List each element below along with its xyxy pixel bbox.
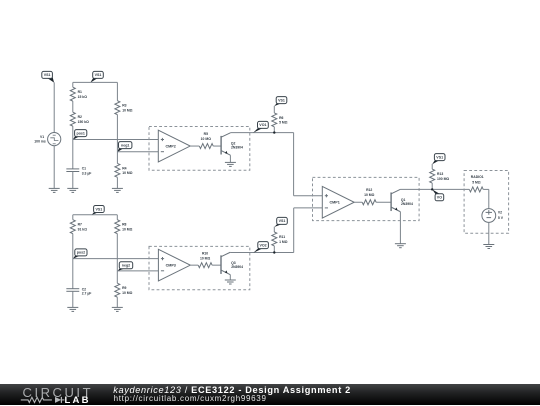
- svg-text:CMP1: CMP1: [330, 200, 340, 204]
- wire pos1 rail to CMP2 plus: [73, 139, 159, 141]
- wire R4 to ground: [116, 177, 118, 188]
- transistor Q3 2N3904: [221, 252, 243, 274]
- svg-text:150 kΩ: 150 kΩ: [78, 120, 89, 124]
- resistor R1 15k: [70, 87, 87, 101]
- svg-text:10 MΩ: 10 MΩ: [122, 108, 133, 112]
- svg-text:R8: R8: [122, 223, 126, 227]
- svg-text:10 MΩ: 10 MΩ: [200, 257, 211, 261]
- voltage source V1 100ms: [34, 133, 61, 146]
- wire CMP2 out to R5: [190, 145, 199, 147]
- net flag pos1: [73, 130, 87, 140]
- capacitor C2 2.7uF: [66, 288, 91, 296]
- svg-text:neg1: neg1: [121, 143, 129, 147]
- resistor R7 91k: [70, 220, 87, 234]
- wire bottom rail R7-R8: [73, 214, 118, 216]
- svg-text:R5: R5: [204, 132, 208, 136]
- svg-text:neg2: neg2: [122, 264, 130, 268]
- wire R8 to neg2: [116, 234, 118, 271]
- junction dot R6/VO1: [273, 131, 275, 133]
- wire neg1 rail to CMP2 minus: [117, 151, 158, 153]
- svg-text:R11: R11: [279, 235, 285, 239]
- svg-text:R10: R10: [202, 252, 208, 256]
- wire Q1 emitter to ground: [399, 212, 401, 244]
- resistor R11 1M: [272, 232, 288, 246]
- wire rail to R7: [72, 215, 74, 220]
- svg-text:VS1: VS1: [436, 155, 443, 159]
- wire pos1 to C1: [72, 140, 74, 169]
- net flag VO: [432, 189, 444, 200]
- wire neg1 to R4: [116, 152, 118, 164]
- ground under C1: [67, 188, 78, 192]
- svg-text:VO: VO: [437, 196, 442, 200]
- net flag VO2: [253, 242, 268, 253]
- svg-text:10 MΩ: 10 MΩ: [122, 227, 133, 231]
- svg-text:15 kΩ: 15 kΩ: [78, 95, 88, 99]
- svg-text:100 ms: 100 ms: [34, 140, 46, 144]
- CircuitLab logo wordmark: [23, 385, 94, 400]
- net flag VS1 bottom divider: [91, 206, 104, 216]
- svg-text:VO2: VO2: [259, 243, 266, 247]
- resistor R6 5M: [272, 113, 288, 127]
- wire R2 to pos1: [72, 126, 74, 139]
- svg-text:2N3904: 2N3904: [401, 202, 413, 206]
- wire R12 to Q1 base: [376, 201, 391, 203]
- svg-text:10 MΩ: 10 MΩ: [364, 193, 375, 197]
- svg-text:100 MΩ: 100 MΩ: [437, 177, 449, 181]
- ground under Q1: [395, 244, 406, 248]
- wire Q2 emitter to ground: [229, 155, 231, 162]
- svg-text:C1: C1: [82, 167, 86, 171]
- svg-text:R7: R7: [78, 223, 82, 227]
- svg-text:V1: V1: [40, 135, 44, 139]
- dashed box around CMP3 stage: [149, 246, 250, 289]
- wire V1 bottom to ground: [53, 146, 55, 189]
- resistor R12 10M: [362, 188, 376, 205]
- svg-text:CMP2: CMP2: [166, 144, 176, 148]
- wire Q3 emitter to ground: [229, 275, 231, 280]
- wire rail to R1: [72, 82, 74, 87]
- svg-text:2N3904: 2N3904: [231, 265, 243, 269]
- ground under V2: [483, 245, 494, 249]
- resistor R2 150k: [70, 112, 89, 126]
- ground at Q3 emitter: [225, 280, 236, 284]
- svg-text:VS1: VS1: [95, 73, 102, 77]
- wire rail to R3: [116, 82, 118, 100]
- svg-text:CMP3: CMP3: [166, 263, 176, 267]
- resistor R9 10M: [115, 283, 133, 297]
- svg-text:RADIO1: RADIO1: [471, 175, 484, 179]
- svg-text:R9: R9: [122, 286, 126, 290]
- wire R3 to neg1: [116, 115, 118, 152]
- footer bar: [0, 384, 540, 405]
- logo resistor-diode squiggle: [0, 384, 110, 405]
- svg-text:V2: V2: [498, 211, 502, 215]
- wire VO1 down to CMP1 plus: [294, 133, 323, 196]
- wire R7 to pos2: [72, 234, 74, 259]
- wire Q3 collector to corner: [230, 252, 293, 254]
- wire CMP1 out to R12: [354, 201, 362, 203]
- svg-text:1 MΩ: 1 MΩ: [279, 240, 288, 244]
- wire Q2 collector to corner: [230, 132, 293, 134]
- ground under R4: [112, 188, 123, 192]
- op-amp comparator CMP1: [322, 186, 354, 218]
- svg-text:VS1: VS1: [44, 73, 51, 77]
- svg-text:91 kΩ: 91 kΩ: [78, 227, 88, 231]
- op-amp comparator CMP3: [158, 249, 190, 281]
- net flag VS1 on V1 branch: [42, 71, 54, 82]
- wire R9 to ground: [116, 297, 118, 307]
- wire V2 to ground: [488, 222, 490, 244]
- svg-text:10 MΩ: 10 MΩ: [201, 137, 212, 141]
- svg-text:5 MΩ: 5 MΩ: [279, 121, 288, 125]
- svg-text:R12: R12: [366, 188, 372, 192]
- wire R1 to R2: [72, 101, 74, 112]
- wire VS1 flag to V1 top: [53, 82, 55, 132]
- wire pos2 rail to CMP3 plus: [73, 258, 159, 260]
- dashed box around CMP1 stage: [313, 177, 420, 220]
- svg-text:R4: R4: [122, 166, 126, 170]
- wire C2 to ground: [72, 291, 74, 307]
- svg-text:R2: R2: [78, 115, 82, 119]
- wire pos2 to C2: [72, 259, 74, 289]
- footer title text: [113, 385, 351, 395]
- svg-text:10 MΩ: 10 MΩ: [122, 291, 133, 295]
- svg-text:R6: R6: [279, 116, 283, 120]
- dashed box around CMP2 stage: [149, 127, 250, 171]
- ground under C2: [67, 307, 78, 311]
- resistor R13 100M: [430, 169, 450, 183]
- svg-text:10 MΩ: 10 MΩ: [122, 171, 133, 175]
- net flag VS1 on divider rail: [90, 71, 103, 82]
- op-amp comparator CMP2: [158, 130, 190, 162]
- wire R11 to VO2 rail: [273, 246, 275, 253]
- net flag VS1 above R6: [274, 97, 287, 107]
- footer url: [114, 394, 267, 403]
- ground under R9: [112, 307, 123, 311]
- dashed box around RADIO1: [464, 171, 509, 234]
- net flag VS1 above R11: [274, 217, 287, 227]
- resistor R5 10M: [199, 132, 213, 149]
- svg-text:2N3904: 2N3904: [231, 146, 243, 150]
- wire CMP3 out to R10: [190, 264, 198, 266]
- transistor Q2 2N3904: [221, 133, 243, 155]
- wire VS1 to R13: [431, 164, 433, 169]
- net flag neg1: [117, 142, 131, 152]
- wire R5 to Q2 base: [213, 145, 221, 147]
- svg-text:5 MΩ: 5 MΩ: [472, 180, 481, 184]
- svg-text:R3: R3: [122, 104, 126, 108]
- svg-text:3.3 µF: 3.3 µF: [82, 171, 92, 175]
- net flag pos2: [73, 249, 87, 259]
- junction dot R13/VO: [431, 188, 433, 190]
- svg-text:VS1: VS1: [96, 207, 103, 211]
- voltage source V2 5V: [482, 209, 504, 223]
- svg-text:VS1: VS1: [278, 98, 285, 102]
- net flag VO1: [253, 121, 268, 132]
- svg-text:R13: R13: [437, 172, 443, 176]
- net flag neg2: [117, 262, 132, 271]
- svg-text:2.7 µF: 2.7 µF: [82, 292, 92, 296]
- resistor RADIO1 5M: [469, 175, 483, 192]
- wire R6 to VO1 rail: [273, 127, 275, 133]
- svg-text:pos1: pos1: [77, 131, 85, 135]
- resistor R4 10M: [115, 163, 133, 177]
- wire VS1 to R6: [273, 106, 275, 113]
- resistor R8 10M: [115, 220, 133, 234]
- wire R13 to VO rail: [431, 183, 433, 189]
- svg-text:R1: R1: [78, 90, 82, 94]
- svg-text:VS1: VS1: [279, 219, 286, 223]
- svg-text:5 V: 5 V: [498, 216, 504, 220]
- wire neg2 to R9: [116, 271, 118, 283]
- wire top rail R1-R3: [73, 81, 118, 83]
- wire neg2 rail to CMP3 minus: [117, 270, 158, 272]
- ground under V1: [49, 188, 60, 192]
- junction dot R11/VO2: [273, 251, 275, 253]
- wire R10 to Q3 base: [212, 264, 221, 266]
- wire VO2 up to CMP1 minus: [294, 208, 323, 253]
- ground at Q2 emitter: [225, 162, 236, 166]
- wire Q1 collector rail to RADIO1: [400, 188, 469, 190]
- resistor R10 10M: [198, 252, 212, 268]
- wire VS1 to R11: [273, 227, 275, 232]
- resistor R3 10M: [115, 101, 133, 115]
- wire rail to R8: [116, 215, 118, 220]
- svg-text:VO1: VO1: [259, 123, 266, 127]
- transistor Q1 2N3904: [391, 189, 413, 211]
- net flag VS1 above R13: [432, 154, 445, 165]
- wire C1 to ground: [72, 172, 74, 189]
- svg-text:pos2: pos2: [77, 251, 85, 255]
- wire RADIO1 to V2: [483, 189, 489, 208]
- capacitor C1 3.3uF: [66, 167, 91, 176]
